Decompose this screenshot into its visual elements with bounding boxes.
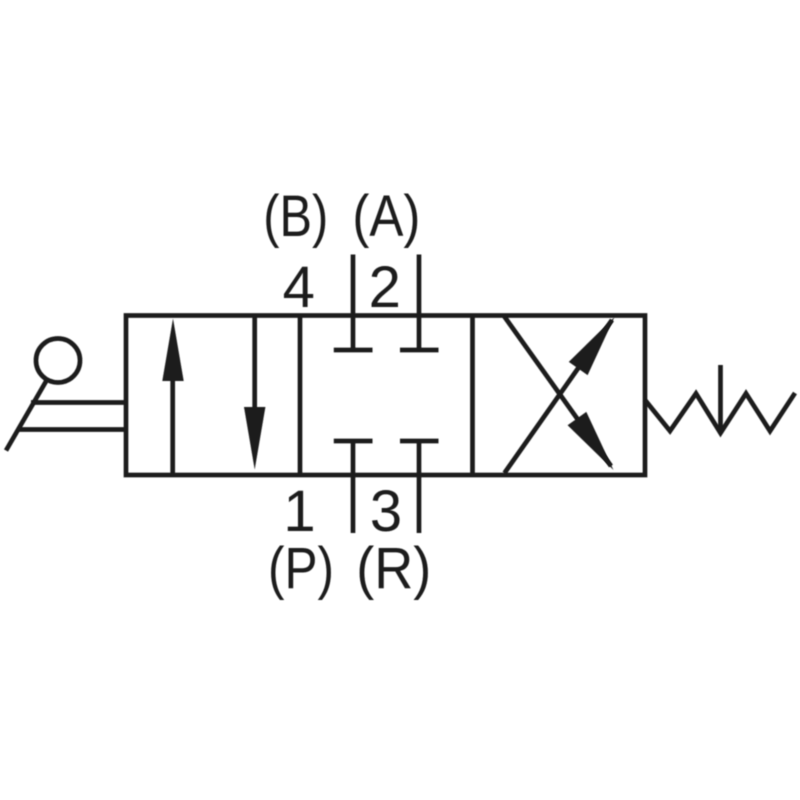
svg-text:(R): (R) [356, 536, 431, 601]
lever arm [6, 381, 47, 451]
spring adjustment line [718, 365, 723, 430]
svg-text:2: 2 [369, 255, 401, 320]
position divider right [470, 316, 475, 476]
svg-text:(P): (P) [268, 536, 334, 601]
valve body outer box [126, 316, 645, 476]
svg-text:4: 4 [283, 255, 315, 320]
blocked port T bar top-left [334, 348, 373, 353]
crossed flow path A (right position, down-right) [504, 316, 611, 466]
down flow arrow stem (left position) [252, 316, 257, 410]
arrowhead down-right (right position) [568, 412, 614, 470]
up flow arrow stem (left position) [170, 379, 175, 475]
svg-text:1: 1 [283, 479, 315, 544]
arrowhead up-right (right position) [569, 317, 615, 375]
spring return zigzag [645, 393, 795, 433]
up arrowhead (left position) [162, 319, 183, 382]
svg-text:(B): (B) [263, 184, 328, 249]
svg-text:3: 3 [370, 479, 402, 544]
blocked port T bar bottom-left [334, 439, 373, 444]
blocked port T bar bottom-right [400, 439, 439, 444]
position divider left [298, 316, 303, 476]
port 4 stub above body [351, 255, 356, 350]
port 1 stub below body [351, 441, 356, 533]
lever linkage lower line [19, 427, 126, 432]
lever knob circle [36, 339, 80, 383]
port 2 stub above body [417, 255, 422, 350]
lever linkage upper line [31, 400, 126, 405]
crossed flow path B (right position, up-right) [505, 320, 613, 473]
svg-text:(A): (A) [352, 184, 420, 249]
blocked port T bar top-right [400, 348, 439, 353]
down arrowhead (left position) [244, 407, 265, 470]
port 3 stub below body [417, 441, 422, 533]
